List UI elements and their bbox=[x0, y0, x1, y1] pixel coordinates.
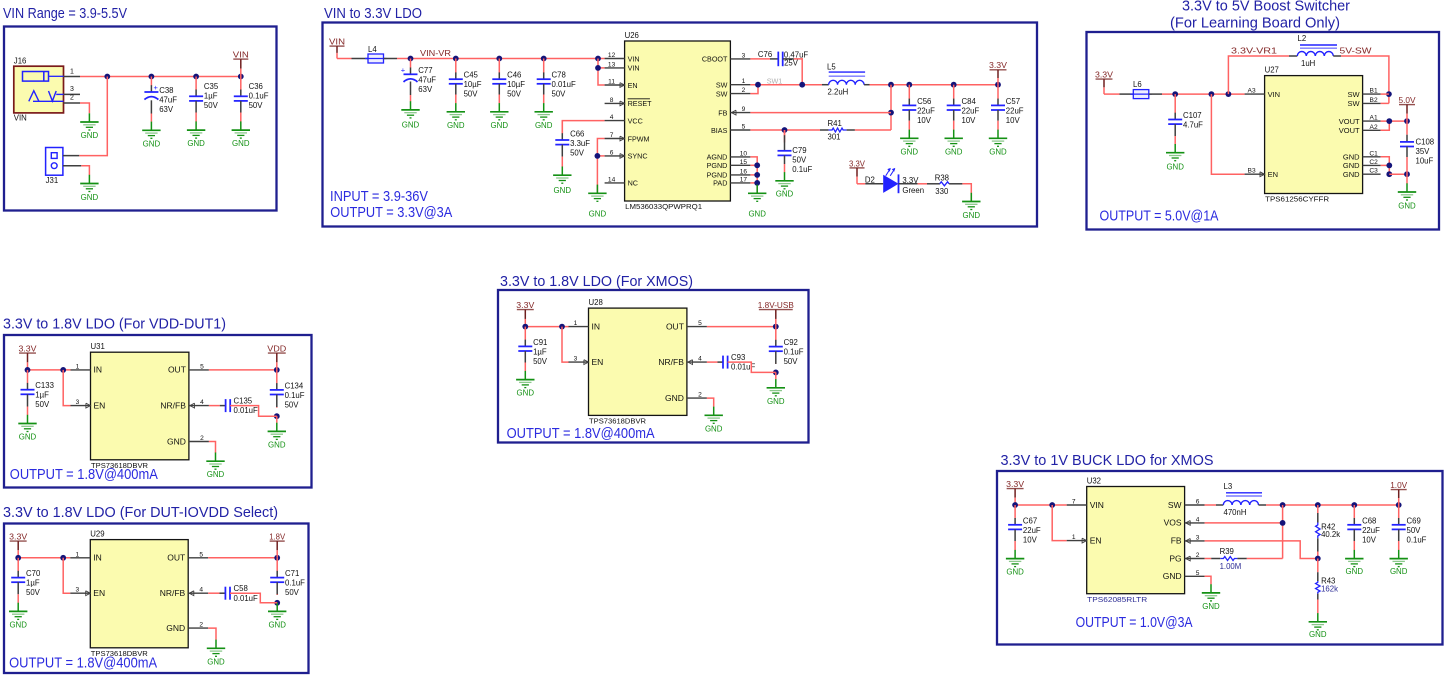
svg-text:22uF: 22uF bbox=[917, 106, 935, 115]
svg-text:EN: EN bbox=[1268, 170, 1278, 179]
svg-text:GND: GND bbox=[776, 190, 794, 199]
svg-text:GND: GND bbox=[535, 121, 553, 130]
svg-text:3.3V-VR1: 3.3V-VR1 bbox=[1231, 47, 1278, 56]
svg-text:GND: GND bbox=[268, 440, 286, 449]
svg-text:GND: GND bbox=[9, 620, 27, 629]
svg-text:C2: C2 bbox=[1369, 159, 1378, 166]
svg-text:SW: SW bbox=[1348, 99, 1361, 108]
svg-text:10V: 10V bbox=[917, 116, 932, 125]
svg-text:LM536033QPWPRQ1: LM536033QPWPRQ1 bbox=[625, 202, 702, 211]
svg-text:C1: C1 bbox=[1369, 150, 1378, 157]
svg-text:R41: R41 bbox=[828, 119, 842, 128]
svg-text:C133: C133 bbox=[35, 381, 54, 390]
svg-text:EN: EN bbox=[592, 357, 604, 367]
svg-text:3: 3 bbox=[70, 86, 74, 93]
svg-text:GND: GND bbox=[945, 147, 963, 156]
svg-text:Green: Green bbox=[902, 186, 924, 195]
svg-text:50V: 50V bbox=[1407, 526, 1422, 535]
svg-text:C135: C135 bbox=[234, 396, 253, 405]
svg-text:SW: SW bbox=[716, 81, 728, 90]
svg-text:10µF: 10µF bbox=[464, 80, 482, 89]
svg-text:GND: GND bbox=[1343, 170, 1360, 179]
svg-text:17: 17 bbox=[740, 176, 748, 183]
svg-text:11: 11 bbox=[608, 79, 615, 86]
svg-text:1µF: 1µF bbox=[35, 391, 49, 400]
svg-text:GND: GND bbox=[1166, 162, 1184, 171]
svg-text:GND: GND bbox=[1309, 630, 1327, 639]
svg-text:16: 16 bbox=[740, 168, 748, 175]
svg-text:3.3V: 3.3V bbox=[516, 300, 534, 310]
svg-text:B2: B2 bbox=[1370, 97, 1378, 104]
svg-text:OUTPUT = 5.0V@1A: OUTPUT = 5.0V@1A bbox=[1100, 209, 1219, 225]
svg-text:3: 3 bbox=[75, 587, 79, 594]
svg-text:VIN: VIN bbox=[233, 50, 249, 60]
svg-text:50V: 50V bbox=[249, 101, 264, 110]
svg-text:GND: GND bbox=[402, 121, 420, 130]
svg-text:IN: IN bbox=[592, 321, 601, 331]
svg-text:25V: 25V bbox=[784, 59, 799, 68]
svg-text:7: 7 bbox=[610, 132, 614, 139]
svg-text:C134: C134 bbox=[285, 381, 304, 390]
svg-text:GND: GND bbox=[81, 193, 99, 202]
svg-text:5: 5 bbox=[1196, 570, 1200, 577]
svg-text:R38: R38 bbox=[935, 173, 949, 182]
svg-text:GND: GND bbox=[1006, 568, 1024, 577]
svg-text:C45: C45 bbox=[464, 71, 479, 80]
svg-text:5: 5 bbox=[742, 124, 746, 131]
svg-text:U31: U31 bbox=[91, 342, 105, 351]
svg-text:IN: IN bbox=[93, 553, 102, 563]
svg-text:NC: NC bbox=[628, 179, 638, 188]
svg-text:C56: C56 bbox=[917, 97, 931, 106]
svg-text:+: + bbox=[154, 83, 159, 92]
svg-text:3.3uF: 3.3uF bbox=[570, 139, 590, 148]
svg-text:GND: GND bbox=[901, 147, 919, 156]
svg-text:3.3V to 1.8V LDO (For XMOS): 3.3V to 1.8V LDO (For XMOS) bbox=[500, 273, 693, 290]
svg-text:C79: C79 bbox=[792, 146, 806, 155]
svg-text:EN: EN bbox=[1090, 535, 1102, 545]
svg-text:OUTPUT = 1.8V@400mA: OUTPUT = 1.8V@400mA bbox=[10, 467, 158, 483]
svg-text:GND: GND bbox=[447, 121, 465, 130]
svg-text:TPS73618DBVR: TPS73618DBVR bbox=[589, 417, 647, 426]
svg-text:GND: GND bbox=[166, 623, 185, 633]
svg-text:GND: GND bbox=[989, 147, 1007, 156]
svg-text:GND: GND bbox=[517, 389, 535, 398]
svg-text:VDD: VDD bbox=[267, 344, 286, 354]
svg-text:GND: GND bbox=[268, 620, 286, 629]
svg-text:PGND: PGND bbox=[707, 161, 728, 170]
svg-text:0.1uF: 0.1uF bbox=[249, 92, 269, 101]
svg-text:L6: L6 bbox=[1133, 80, 1142, 89]
svg-text:50V: 50V bbox=[285, 588, 300, 597]
svg-text:1.8V-USB: 1.8V-USB bbox=[758, 300, 794, 310]
svg-text:40.2k: 40.2k bbox=[1321, 530, 1340, 539]
svg-text:C108: C108 bbox=[1416, 138, 1435, 147]
svg-text:TPS61256CYFFR: TPS61256CYFFR bbox=[1265, 195, 1330, 204]
svg-text:10V: 10V bbox=[1023, 535, 1038, 544]
svg-text:OUT: OUT bbox=[666, 321, 684, 331]
svg-text:OUT: OUT bbox=[168, 365, 186, 375]
svg-text:GND: GND bbox=[665, 393, 684, 403]
svg-text:VOS: VOS bbox=[1164, 518, 1182, 528]
svg-text:C77: C77 bbox=[418, 66, 432, 75]
svg-text:6: 6 bbox=[1196, 499, 1200, 506]
svg-text:7: 7 bbox=[1072, 499, 1076, 506]
svg-text:L4: L4 bbox=[368, 45, 377, 54]
svg-text:5: 5 bbox=[698, 320, 702, 327]
svg-text:3.3V: 3.3V bbox=[989, 60, 1007, 70]
svg-text:2.2uH: 2.2uH bbox=[828, 88, 849, 97]
svg-text:IN: IN bbox=[94, 365, 103, 375]
svg-text:C91: C91 bbox=[533, 338, 547, 347]
svg-text:GND: GND bbox=[207, 657, 225, 666]
svg-text:50V: 50V bbox=[552, 90, 567, 99]
svg-text:50V: 50V bbox=[35, 400, 50, 409]
svg-text:C38: C38 bbox=[159, 86, 173, 95]
svg-text:50V: 50V bbox=[784, 357, 799, 366]
svg-text:C107: C107 bbox=[1183, 111, 1202, 120]
svg-text:50V: 50V bbox=[533, 357, 548, 366]
svg-text:C57: C57 bbox=[1006, 97, 1020, 106]
svg-text:162k: 162k bbox=[1321, 585, 1338, 594]
svg-text:5: 5 bbox=[200, 363, 204, 370]
svg-text:C58: C58 bbox=[234, 584, 248, 593]
svg-text:VIN: VIN bbox=[329, 37, 345, 47]
svg-text:2: 2 bbox=[199, 622, 203, 629]
svg-text:50V: 50V bbox=[507, 90, 522, 99]
svg-text:VIN: VIN bbox=[628, 54, 640, 63]
svg-text:63V: 63V bbox=[159, 105, 174, 114]
svg-text:GND: GND bbox=[767, 397, 785, 406]
svg-text:VIN to 3.3V LDO: VIN to 3.3V LDO bbox=[324, 5, 422, 22]
svg-text:GND: GND bbox=[207, 470, 225, 479]
svg-text:GND: GND bbox=[143, 139, 161, 148]
svg-text:J16: J16 bbox=[14, 57, 27, 66]
svg-text:C46: C46 bbox=[507, 71, 521, 80]
svg-text:35V: 35V bbox=[1416, 147, 1431, 156]
svg-text:OUTPUT = 1.8V@400mA: OUTPUT = 1.8V@400mA bbox=[9, 656, 157, 672]
svg-text:U29: U29 bbox=[90, 529, 104, 538]
svg-text:A1: A1 bbox=[1370, 115, 1378, 122]
svg-text:(For Learning Board Only): (For Learning Board Only) bbox=[1170, 15, 1340, 32]
svg-text:GND: GND bbox=[589, 210, 607, 219]
svg-text:1uH: 1uH bbox=[1301, 59, 1315, 68]
svg-text:EN: EN bbox=[628, 81, 638, 90]
svg-text:2: 2 bbox=[1196, 552, 1200, 559]
svg-text:+: + bbox=[401, 66, 406, 75]
svg-text:1: 1 bbox=[574, 320, 578, 327]
svg-text:10: 10 bbox=[740, 150, 748, 157]
svg-text:1: 1 bbox=[76, 363, 80, 370]
svg-text:GND: GND bbox=[554, 186, 572, 195]
svg-text:330: 330 bbox=[935, 187, 949, 196]
svg-text:9: 9 bbox=[742, 106, 746, 113]
svg-text:C3: C3 bbox=[1369, 168, 1378, 175]
svg-text:C66: C66 bbox=[570, 130, 584, 139]
svg-text:1: 1 bbox=[75, 551, 79, 558]
svg-text:3.3V to 1V BUCK LDO for XMOS: 3.3V to 1V BUCK LDO for XMOS bbox=[1001, 452, 1214, 469]
svg-text:L2: L2 bbox=[1298, 34, 1307, 43]
svg-text:L5: L5 bbox=[827, 63, 836, 72]
svg-text:J31: J31 bbox=[46, 176, 59, 185]
svg-text:NR/FB: NR/FB bbox=[160, 400, 186, 410]
svg-text:5.0V: 5.0V bbox=[1399, 95, 1416, 105]
svg-text:8: 8 bbox=[610, 97, 614, 104]
svg-text:50V: 50V bbox=[26, 588, 41, 597]
svg-text:GND: GND bbox=[963, 211, 981, 220]
svg-text:L3: L3 bbox=[1224, 482, 1233, 491]
svg-text:A2: A2 bbox=[1370, 124, 1378, 131]
svg-text:1.0V: 1.0V bbox=[1390, 480, 1407, 490]
svg-text:3: 3 bbox=[1196, 534, 1200, 541]
svg-text:SW: SW bbox=[1348, 90, 1361, 99]
svg-text:47uF: 47uF bbox=[418, 75, 436, 84]
svg-text:VOUT: VOUT bbox=[1339, 126, 1360, 135]
svg-text:SW: SW bbox=[1168, 500, 1182, 510]
svg-text:15: 15 bbox=[740, 159, 748, 166]
svg-text:C71: C71 bbox=[285, 569, 299, 578]
svg-text:2: 2 bbox=[698, 392, 702, 399]
svg-text:0.01uF: 0.01uF bbox=[552, 80, 577, 89]
svg-text:4: 4 bbox=[199, 587, 203, 594]
svg-text:1µF: 1µF bbox=[26, 579, 40, 588]
svg-text:GND: GND bbox=[1390, 567, 1408, 576]
svg-text:50V: 50V bbox=[464, 90, 479, 99]
svg-text:SYNC: SYNC bbox=[628, 152, 648, 161]
svg-text:1: 1 bbox=[1072, 534, 1076, 541]
svg-text:OUTPUT = 3.3V@3A: OUTPUT = 3.3V@3A bbox=[330, 205, 452, 221]
svg-text:VCC: VCC bbox=[628, 116, 643, 125]
svg-text:0.01uF: 0.01uF bbox=[234, 406, 259, 415]
svg-text:VIN-VR: VIN-VR bbox=[420, 49, 451, 58]
svg-text:10V: 10V bbox=[1006, 116, 1021, 125]
svg-text:C78: C78 bbox=[552, 71, 566, 80]
svg-text:22uF: 22uF bbox=[1023, 526, 1041, 535]
svg-text:50V: 50V bbox=[792, 156, 807, 165]
svg-text:B1: B1 bbox=[1370, 88, 1378, 95]
svg-text:U26: U26 bbox=[625, 31, 639, 40]
svg-text:3.3V to 1.8V LDO (For VDD-DUT1: 3.3V to 1.8V LDO (For VDD-DUT1) bbox=[3, 316, 226, 333]
svg-text:3: 3 bbox=[76, 399, 80, 406]
svg-text:C92: C92 bbox=[784, 338, 798, 347]
svg-text:22uF: 22uF bbox=[1006, 106, 1024, 115]
svg-text:C69: C69 bbox=[1407, 516, 1421, 525]
svg-text:12: 12 bbox=[608, 52, 616, 59]
svg-text:14: 14 bbox=[608, 176, 616, 183]
svg-text:NR/FB: NR/FB bbox=[160, 588, 186, 598]
svg-text:EN: EN bbox=[93, 588, 105, 598]
svg-text:63V: 63V bbox=[418, 85, 433, 94]
svg-text:CBOOT: CBOOT bbox=[702, 55, 728, 64]
svg-text:5V-SW: 5V-SW bbox=[1340, 47, 1372, 56]
svg-text:0.1uF: 0.1uF bbox=[792, 165, 812, 174]
svg-text:C68: C68 bbox=[1362, 516, 1376, 525]
svg-text:50V: 50V bbox=[285, 400, 300, 409]
svg-text:50V: 50V bbox=[204, 101, 219, 110]
svg-text:1.00M: 1.00M bbox=[1220, 562, 1242, 571]
svg-text:0.01uF: 0.01uF bbox=[234, 594, 259, 603]
svg-text:13: 13 bbox=[608, 61, 616, 68]
svg-text:U27: U27 bbox=[1265, 65, 1279, 74]
svg-text:3: 3 bbox=[574, 356, 578, 363]
svg-text:VIN: VIN bbox=[14, 114, 27, 123]
svg-text:OUT: OUT bbox=[167, 553, 185, 563]
svg-text:GND: GND bbox=[1343, 161, 1360, 170]
svg-text:PG: PG bbox=[1169, 553, 1181, 563]
svg-text:C84: C84 bbox=[962, 97, 977, 106]
svg-text:4: 4 bbox=[200, 399, 204, 406]
svg-text:A3: A3 bbox=[1248, 88, 1256, 95]
svg-text:PAD: PAD bbox=[713, 179, 727, 188]
svg-text:4.7uF: 4.7uF bbox=[1183, 121, 1203, 130]
svg-text:GND: GND bbox=[705, 424, 723, 433]
svg-text:U32: U32 bbox=[1087, 476, 1101, 485]
svg-text:U28: U28 bbox=[589, 298, 603, 307]
svg-text:OUTPUT = 1.8V@400mA: OUTPUT = 1.8V@400mA bbox=[507, 426, 655, 442]
svg-text:3.3V: 3.3V bbox=[1006, 479, 1024, 489]
svg-text:FPWM: FPWM bbox=[628, 134, 650, 143]
svg-text:GND: GND bbox=[748, 210, 766, 219]
svg-text:GND: GND bbox=[167, 436, 186, 446]
svg-text:GND: GND bbox=[491, 121, 509, 130]
svg-text:C36: C36 bbox=[249, 82, 263, 91]
svg-text:1: 1 bbox=[742, 78, 746, 85]
svg-text:10uF: 10uF bbox=[1416, 157, 1434, 166]
svg-text:1: 1 bbox=[70, 68, 74, 75]
svg-text:10V: 10V bbox=[962, 116, 977, 125]
svg-text:2: 2 bbox=[742, 87, 746, 94]
svg-text:GND: GND bbox=[1346, 567, 1364, 576]
svg-text:3: 3 bbox=[742, 52, 746, 59]
svg-text:301: 301 bbox=[828, 133, 841, 142]
svg-text:C70: C70 bbox=[26, 569, 41, 578]
svg-text:0.1uF: 0.1uF bbox=[1407, 535, 1427, 544]
svg-text:1µF: 1µF bbox=[204, 92, 218, 101]
svg-text:FB: FB bbox=[718, 108, 727, 117]
svg-text:GND: GND bbox=[81, 131, 99, 140]
svg-text:OUTPUT = 1.0V@3A: OUTPUT = 1.0V@3A bbox=[1076, 615, 1193, 631]
svg-text:GND: GND bbox=[1163, 571, 1182, 581]
svg-text:VIN: VIN bbox=[628, 64, 640, 73]
svg-text:INPUT = 3.9-36V: INPUT = 3.9-36V bbox=[330, 189, 428, 205]
svg-text:VIN: VIN bbox=[1090, 500, 1104, 510]
svg-text:C93: C93 bbox=[731, 353, 745, 362]
svg-text:0.1uF: 0.1uF bbox=[784, 348, 804, 357]
svg-text:GND: GND bbox=[19, 433, 37, 442]
svg-text:3.3V: 3.3V bbox=[9, 532, 27, 542]
svg-text:B3: B3 bbox=[1248, 168, 1256, 175]
svg-text:5: 5 bbox=[199, 551, 203, 558]
svg-text:SW: SW bbox=[716, 89, 728, 98]
svg-text:C35: C35 bbox=[204, 82, 219, 91]
svg-text:22uF: 22uF bbox=[962, 106, 980, 115]
svg-text:10V: 10V bbox=[1362, 535, 1377, 544]
svg-text:3.3V: 3.3V bbox=[19, 344, 37, 354]
svg-text:NR/FB: NR/FB bbox=[658, 357, 684, 367]
svg-text:22uF: 22uF bbox=[1362, 526, 1380, 535]
svg-text:RESET: RESET bbox=[628, 99, 653, 108]
svg-text:470nH: 470nH bbox=[1224, 508, 1247, 517]
svg-text:TPS62085RLTR: TPS62085RLTR bbox=[1087, 595, 1148, 604]
svg-text:3.3V to 5V Boost Switcher: 3.3V to 5V Boost Switcher bbox=[1182, 0, 1350, 15]
svg-text:VIN Range = 3.9-5.5V: VIN Range = 3.9-5.5V bbox=[3, 5, 128, 22]
svg-text:EN: EN bbox=[94, 400, 106, 410]
svg-text:2: 2 bbox=[70, 95, 74, 102]
svg-text:D2: D2 bbox=[865, 176, 875, 185]
svg-text:3.3V: 3.3V bbox=[1095, 70, 1113, 80]
svg-text:GND: GND bbox=[1398, 201, 1416, 210]
svg-text:GND: GND bbox=[232, 139, 250, 148]
svg-text:1µF: 1µF bbox=[533, 347, 547, 356]
svg-text:6: 6 bbox=[610, 149, 614, 156]
svg-text:4: 4 bbox=[610, 114, 614, 121]
svg-text:R39: R39 bbox=[1220, 547, 1234, 556]
svg-text:VIN: VIN bbox=[1268, 90, 1281, 99]
svg-text:VOUT: VOUT bbox=[1339, 117, 1360, 126]
svg-text:FB: FB bbox=[1171, 536, 1182, 546]
svg-text:GND: GND bbox=[187, 139, 205, 148]
svg-text:4: 4 bbox=[698, 356, 702, 363]
svg-text:3.3V: 3.3V bbox=[849, 158, 865, 168]
svg-text:3.3V to 1.8V LDO (For DUT-IOVD: 3.3V to 1.8V LDO (For DUT-IOVDD Select) bbox=[3, 504, 278, 521]
svg-text:10µF: 10µF bbox=[507, 80, 525, 89]
svg-text:50V: 50V bbox=[570, 149, 585, 158]
svg-text:1.8V: 1.8V bbox=[269, 532, 285, 542]
svg-text:4: 4 bbox=[1196, 516, 1200, 523]
svg-text:0.1uF: 0.1uF bbox=[285, 391, 305, 400]
svg-text:C76: C76 bbox=[758, 50, 772, 59]
svg-text:2: 2 bbox=[200, 435, 204, 442]
svg-text:47uF: 47uF bbox=[159, 96, 177, 105]
svg-text:BIAS: BIAS bbox=[711, 126, 728, 135]
svg-text:0.1uF: 0.1uF bbox=[285, 579, 305, 588]
svg-text:GND: GND bbox=[1202, 602, 1220, 611]
svg-text:C67: C67 bbox=[1023, 516, 1037, 525]
